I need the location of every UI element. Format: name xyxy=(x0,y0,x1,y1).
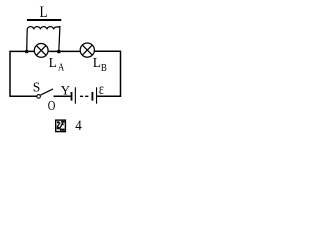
node junction dot left xyxy=(25,50,29,54)
wire battery to right corner xyxy=(97,95,121,97)
svg-text:L: L xyxy=(49,56,57,71)
node junction dot right xyxy=(57,50,61,54)
switch blade xyxy=(41,89,54,95)
svg-text:L: L xyxy=(93,56,101,71)
svg-text:O: O xyxy=(48,98,56,113)
switch S pivot circle xyxy=(37,95,41,99)
wire top left xyxy=(10,50,34,52)
wire switch to battery xyxy=(54,95,71,97)
svg-text:ε: ε xyxy=(99,81,104,98)
wire between lamps xyxy=(48,50,80,52)
iron core bar xyxy=(27,19,61,21)
wire right side xyxy=(120,51,122,97)
svg-text:Y: Y xyxy=(61,83,70,97)
svg-text:S: S xyxy=(33,80,41,95)
svg-text:B: B xyxy=(101,63,107,74)
svg-text:L: L xyxy=(40,4,48,21)
battery cell 2 short plate xyxy=(92,92,94,101)
battery cell 1 long plate xyxy=(75,87,76,103)
dashed wire between cells xyxy=(80,95,90,97)
wire bottom left to switch xyxy=(10,95,37,97)
caption: hanzi TU (figure) drawn glyph xyxy=(56,120,66,132)
wire top right xyxy=(94,50,120,52)
svg-text:4: 4 xyxy=(75,118,82,134)
battery cell 1 short plate xyxy=(71,92,73,101)
inductor L coil xyxy=(27,27,60,52)
wire left side xyxy=(9,51,11,97)
battery cell 2 long plate xyxy=(96,87,97,103)
lamp LB xyxy=(80,43,94,57)
svg-text:A: A xyxy=(58,62,65,73)
lamp LA xyxy=(34,44,48,58)
